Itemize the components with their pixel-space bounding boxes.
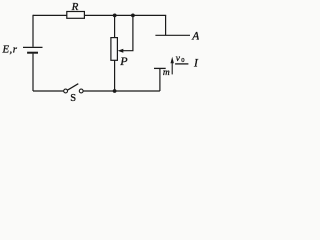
node junction dot 2 bbox=[131, 14, 135, 18]
potentiometer wiper wire bbox=[122, 15, 133, 50]
svg-text:A: A bbox=[191, 30, 199, 42]
wire right vertical to A rail bbox=[165, 15, 167, 35]
terminal rail A bbox=[155, 34, 190, 36]
potentiometer wiper arrowhead bbox=[118, 49, 124, 53]
node junction dot 1 bbox=[113, 14, 117, 18]
node junction dot 3 bbox=[113, 89, 117, 93]
svg-text:S: S bbox=[70, 93, 76, 102]
potentiometer bottom lead bbox=[114, 60, 116, 91]
wire bottom-left horizontal bbox=[33, 90, 64, 92]
terminal bar m bbox=[154, 67, 166, 69]
battery long plate bbox=[23, 46, 43, 48]
svg-text:P: P bbox=[119, 54, 128, 68]
wire bottom-right horizontal bbox=[83, 90, 160, 92]
rod line under v0 bbox=[175, 63, 188, 65]
wire bottom-right riser bbox=[159, 68, 161, 91]
battery short plate bbox=[27, 52, 38, 54]
switch S contact right bbox=[79, 89, 83, 93]
wire top-left horizontal bbox=[33, 14, 67, 16]
potentiometer top lead bbox=[114, 15, 116, 37]
wire left vertical lower bbox=[32, 54, 34, 91]
svg-text:m: m bbox=[163, 68, 170, 78]
switch S lever bbox=[67, 84, 78, 91]
switch S contact left bbox=[64, 89, 68, 93]
wire top-right horizontal bbox=[84, 14, 166, 16]
resistor R bbox=[67, 12, 85, 19]
wire left vertical upper bbox=[32, 15, 34, 47]
potentiometer P body bbox=[111, 38, 118, 61]
svg-text:0: 0 bbox=[181, 57, 184, 64]
svg-text:E,r: E,r bbox=[2, 43, 18, 55]
svg-text:R: R bbox=[71, 1, 79, 13]
velocity arrow v0 bbox=[171, 62, 173, 74]
